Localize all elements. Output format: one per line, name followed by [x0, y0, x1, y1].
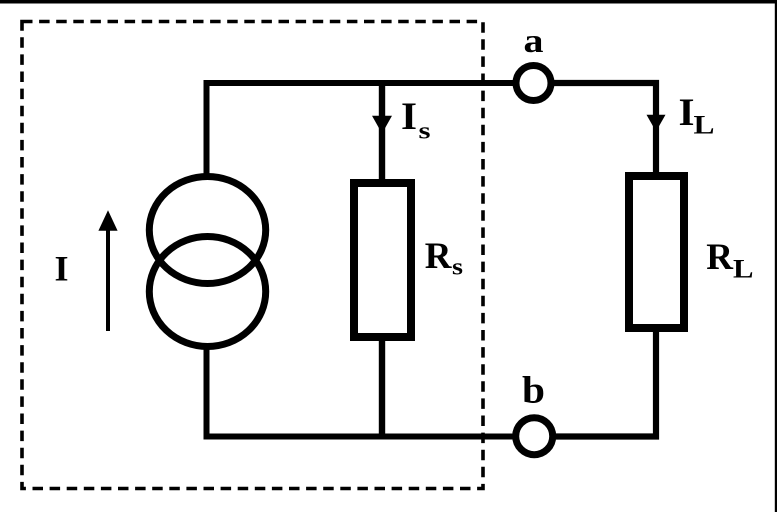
- svg-text:L: L: [733, 255, 754, 284]
- current source I (two overlapping circles): [149, 177, 265, 347]
- wire: source bottom lead + bottom-left horizontal: [207, 346, 515, 437]
- svg-text:R: R: [706, 237, 734, 278]
- resistor Rs: [354, 183, 411, 337]
- wire: Rs top lead (junction on top wire): [379, 83, 385, 181]
- wire: top-left horizontal (source corner to terminal a): [207, 83, 515, 175]
- svg-text:s: s: [419, 119, 431, 145]
- resistor RL: [629, 176, 684, 328]
- current arrow IL (downward arrowhead on RL branch): [647, 115, 666, 132]
- svg-text:R: R: [425, 236, 453, 277]
- svg-text:s: s: [452, 255, 463, 281]
- svg-text:I: I: [679, 91, 695, 134]
- source box (dashed enclosure): [22, 22, 483, 489]
- terminal a: [516, 66, 551, 101]
- current direction arrow I (upward): [98, 210, 117, 331]
- wire: RL bottom lead + bottom-right horizontal (to terminal b): [554, 331, 656, 437]
- terminal b: [516, 418, 553, 455]
- svg-text:I: I: [401, 95, 417, 138]
- wire: top-right horizontal (terminal a to RL top): [554, 83, 657, 176]
- svg-text:I: I: [55, 249, 69, 289]
- current arrow Is (downward arrowhead on Rs branch): [372, 116, 392, 134]
- svg-text:a: a: [524, 23, 544, 60]
- svg-text:L: L: [694, 111, 715, 140]
- wire: Rs bottom lead (junction on bottom wire): [379, 339, 385, 438]
- svg-text:b: b: [522, 370, 545, 412]
